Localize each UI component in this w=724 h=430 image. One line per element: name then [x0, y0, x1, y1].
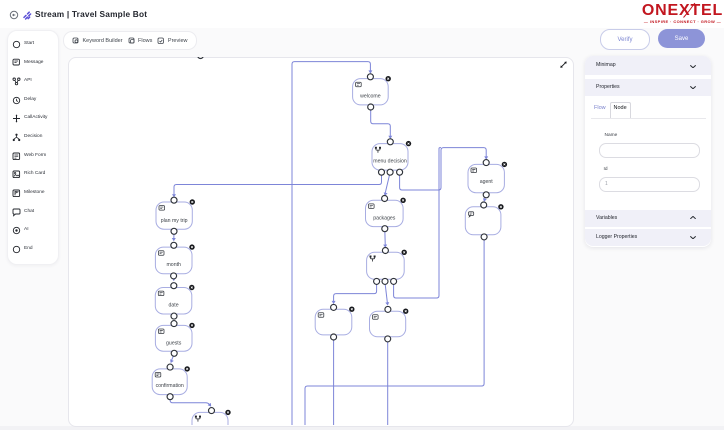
svg-text:plan my trip: plan my trip	[161, 218, 188, 224]
svg-text:date: date	[168, 303, 178, 309]
svg-text:packages: packages	[373, 215, 396, 221]
svg-text:menu decision: menu decision	[373, 159, 407, 165]
svg-text:agent: agent	[480, 179, 494, 185]
svg-text:guests: guests	[166, 340, 182, 346]
svg-text:confirmation: confirmation	[156, 383, 184, 389]
svg-text:month: month	[166, 262, 181, 268]
svg-text:welcome: welcome	[360, 94, 381, 100]
